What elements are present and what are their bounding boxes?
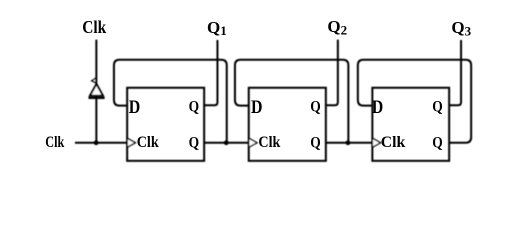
svg-text:Q: Q xyxy=(310,134,321,151)
svg-text:Clk: Clk xyxy=(258,134,280,151)
svg-text:Clk: Clk xyxy=(381,134,406,151)
wire: U2 Q output up to Q2 label xyxy=(326,40,338,106)
U3 feedback loop Qbar to D xyxy=(358,60,471,143)
flip-flop U2 box xyxy=(249,88,326,161)
svg-text:Q: Q xyxy=(189,134,200,151)
svg-text:Q3: Q3 xyxy=(451,18,471,39)
inverter buffer triangle on Clk line xyxy=(90,84,103,96)
node: U1 Qbar junction dot xyxy=(224,140,229,145)
svg-text:Q: Q xyxy=(432,134,443,151)
svg-text:Clk: Clk xyxy=(82,17,106,37)
wire: U1 Q output up to Q1 label xyxy=(204,40,217,105)
wire: bottom Clk horizontal into FF1 xyxy=(75,142,127,144)
svg-text:D: D xyxy=(129,97,141,118)
U2 clock edge triangle xyxy=(249,138,257,147)
svg-text:Q: Q xyxy=(310,98,321,115)
U3 clock edge triangle xyxy=(372,138,380,147)
arrow barb on Clk wire xyxy=(92,78,96,83)
svg-text:Q2: Q2 xyxy=(327,17,347,38)
svg-text:Clk: Clk xyxy=(137,134,159,151)
svg-text:Q: Q xyxy=(189,98,200,115)
U2 feedback loop Qbar to D xyxy=(235,60,348,143)
svg-text:D: D xyxy=(372,97,384,118)
wire: U2 Qbar output to FF3 clock xyxy=(326,142,373,144)
flip-flop U3 box xyxy=(372,88,449,161)
svg-text:Clk: Clk xyxy=(45,134,64,151)
svg-text:D: D xyxy=(251,97,263,118)
U1 feedback loop Qbar to D xyxy=(114,60,227,143)
wire: top Clk vertical from label to junction xyxy=(95,40,97,143)
node: U2 Qbar junction dot xyxy=(346,140,351,145)
wire: U1 Qbar output to FF2 clock xyxy=(204,142,249,144)
node: Clk junction dot xyxy=(94,140,99,145)
wire: U3 Q output up to Q3 label xyxy=(449,40,461,105)
svg-text:Q: Q xyxy=(432,98,443,115)
U1 clock edge triangle xyxy=(127,138,135,147)
inverter base bar xyxy=(88,97,104,99)
flip-flop U1 box xyxy=(127,88,204,161)
svg-text:Q1: Q1 xyxy=(207,18,227,38)
